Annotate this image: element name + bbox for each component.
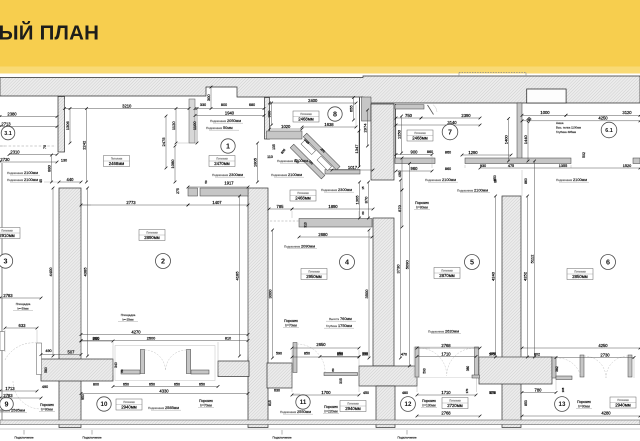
label pod 2620	[428, 329, 461, 334]
header yellow lighter strip	[0, 67, 640, 74]
dim 2650 bay11	[291, 342, 361, 350]
label pod 2550	[280, 409, 313, 414]
svg-text:580: 580	[44, 367, 48, 373]
ceiling box corridor-left	[104, 156, 130, 167]
interior wall room7 bottom	[395, 158, 435, 164]
svg-text:Подоконник: Подоконник	[428, 330, 445, 334]
svg-text:1306: 1306	[65, 121, 70, 131]
svg-text:170: 170	[465, 388, 469, 393]
bottom outer line	[0, 428, 640, 430]
dim 1407	[187, 200, 250, 207]
svg-text:2090мм: 2090мм	[301, 244, 315, 249]
svg-text:ЫЙ ПЛАН: ЫЙ ПЛАН	[0, 21, 99, 45]
svg-text:330: 330	[200, 103, 206, 107]
svg-text:2768: 2768	[441, 411, 451, 416]
svg-text:2890мм: 2890мм	[144, 235, 160, 240]
ceiling box hall	[290, 190, 316, 201]
svg-text:Потолоки: Потолоки	[111, 157, 123, 161]
room circle 4	[340, 255, 355, 270]
svg-text:1805: 1805	[252, 157, 257, 167]
svg-text:2940мм: 2940мм	[121, 405, 137, 410]
room circle 6	[601, 255, 616, 270]
svg-text:4270: 4270	[131, 329, 141, 334]
corridor stub dashed line	[270, 220, 299, 222]
svg-text:h=-25мм: h=-25мм	[122, 318, 133, 322]
svg-text:50мм: 50мм	[223, 125, 233, 130]
svg-text:Подоконник: Подоконник	[277, 159, 294, 163]
ceiling box room6	[567, 269, 593, 280]
svg-text:2100мм: 2100мм	[24, 177, 38, 182]
room1 bottom wall b	[200, 188, 248, 196]
dim 2713	[0, 121, 58, 128]
svg-text:9: 9	[5, 400, 9, 409]
svg-text:850: 850	[337, 353, 343, 357]
dim 4185 rot	[234, 195, 241, 358]
svg-text:4250: 4250	[598, 343, 608, 348]
ceiling box room1	[209, 156, 235, 167]
svg-text:Подоконник: Подоконник	[280, 410, 297, 414]
dim 3730 rot	[395, 179, 402, 360]
svg-text:382: 382	[555, 366, 559, 372]
label pod 2100 d	[277, 158, 310, 163]
connection label 3	[272, 430, 291, 440]
svg-text:2470мм: 2470мм	[214, 161, 230, 166]
dim 1700	[291, 390, 361, 397]
svg-text:575: 575	[490, 391, 496, 395]
svg-text:Потолоки: Потолоки	[347, 402, 359, 406]
dim 4252 rot	[522, 195, 529, 359]
svg-text:11: 11	[300, 399, 307, 406]
svg-text:680: 680	[249, 103, 255, 107]
room circle 3.1	[1, 126, 15, 140]
svg-text:810: 810	[225, 337, 231, 341]
svg-text:2: 2	[161, 257, 165, 266]
svg-text:3.1: 3.1	[4, 131, 12, 137]
svg-text:2950мм: 2950мм	[306, 274, 322, 279]
svg-text:900: 900	[411, 149, 419, 154]
svg-text:110: 110	[267, 155, 273, 159]
dim 655 rot	[348, 96, 355, 121]
svg-text:Потолоки: Потолоки	[123, 400, 135, 404]
svg-text:475: 475	[508, 164, 514, 168]
extension lines horizontal	[0, 109, 522, 395]
svg-text:15: 15	[361, 186, 365, 190]
label vysota 2585	[0, 408, 27, 413]
dim 3140	[395, 120, 482, 127]
dim 785	[268, 204, 294, 211]
svg-text:2720мм: 2720мм	[447, 403, 463, 408]
room7 door diagonal	[428, 105, 434, 115]
svg-text:650: 650	[123, 383, 129, 387]
dim 900	[395, 149, 434, 156]
svg-text:800: 800	[93, 337, 99, 341]
ceiling box room8	[293, 111, 319, 122]
svg-text:2550мм: 2550мм	[297, 409, 311, 414]
svg-text:1890: 1890	[328, 204, 338, 209]
svg-text:310: 310	[304, 222, 308, 228]
room circle 6.1	[601, 122, 617, 138]
svg-text:1700: 1700	[321, 390, 331, 395]
svg-text:4: 4	[345, 258, 349, 267]
svg-text:900: 900	[266, 110, 271, 118]
room circle 10	[97, 397, 111, 411]
svg-text:108: 108	[561, 387, 565, 392]
svg-text:1305: 1305	[354, 195, 359, 205]
hall door leaf diag 1	[301, 140, 315, 154]
svg-text:Подключение: Подключение	[397, 436, 416, 440]
svg-text:80: 80	[331, 368, 335, 372]
hall door leaf diag 2	[317, 156, 331, 170]
svg-text:1713: 1713	[5, 386, 15, 391]
svg-text:780: 780	[535, 387, 543, 392]
label pod 2100 f	[556, 177, 589, 182]
room circle 1	[221, 139, 235, 153]
svg-text:Подоконник: Подоконник	[457, 189, 474, 193]
dim 4330	[80, 388, 250, 395]
svg-text:2300мм: 2300мм	[229, 172, 243, 177]
refr label	[324, 316, 356, 328]
room circle 5	[465, 255, 480, 270]
wall M mid	[373, 218, 394, 366]
ceiling box room3	[0, 228, 20, 239]
svg-text:1750мм: 1750мм	[338, 323, 352, 328]
svg-text:5112: 5112	[529, 254, 534, 263]
dim 870 rot b	[397, 189, 404, 229]
svg-text:1520: 1520	[623, 164, 631, 168]
label pod 2300 b	[321, 187, 354, 192]
dim 2390	[420, 113, 482, 120]
svg-text:850: 850	[304, 352, 310, 356]
dim 2310	[8, 149, 59, 156]
svg-text:860: 860	[445, 151, 451, 155]
svg-text:Подоконник: Подоконник	[425, 178, 442, 182]
svg-text:650: 650	[174, 383, 180, 387]
svg-text:1407: 1407	[212, 200, 222, 205]
dim 300 rot niche	[206, 86, 213, 110]
wall M cross arm	[359, 366, 417, 386]
svg-text:Подключение: Подключение	[272, 436, 291, 440]
dim 4385 rot	[82, 187, 89, 358]
svg-text:7: 7	[448, 128, 452, 137]
connection label 2	[82, 430, 101, 440]
dim 880 rot	[46, 154, 53, 184]
dim 2783 b	[0, 393, 42, 400]
svg-text:8: 8	[333, 110, 337, 119]
svg-text:760мм: 760мм	[340, 316, 352, 321]
ceiling box bay13	[610, 397, 636, 408]
room9 door arc	[5, 343, 37, 360]
svg-text:Подоконник: Подоконник	[284, 245, 301, 249]
svg-text:4280: 4280	[601, 411, 611, 416]
svg-text:275: 275	[176, 188, 180, 194]
svg-text:50: 50	[204, 180, 208, 184]
label podokonnik 50	[206, 125, 239, 130]
room3 dashed line	[0, 145, 56, 147]
svg-text:3: 3	[4, 257, 8, 266]
svg-text:70: 70	[43, 145, 47, 149]
svg-text:2620мм: 2620мм	[445, 329, 459, 334]
svg-text:4330: 4330	[159, 388, 169, 393]
svg-text:655: 655	[348, 105, 353, 113]
svg-text:2600: 2600	[147, 337, 155, 341]
svg-text:Ниша: Ниша	[556, 121, 564, 125]
room9 lower door arc	[13, 381, 41, 409]
dim row 650	[112, 385, 220, 388]
svg-text:480: 480	[402, 391, 408, 395]
ploshchadka 25	[118, 313, 138, 322]
svg-text:1710: 1710	[441, 351, 451, 356]
svg-text:80: 80	[120, 369, 124, 373]
svg-text:5090: 5090	[404, 260, 409, 270]
dim 2768 b	[416, 411, 482, 418]
svg-text:Подключение: Подключение	[14, 436, 33, 440]
svg-text:Потолоки: Потолоки	[574, 270, 586, 274]
svg-text:1400: 1400	[503, 135, 508, 145]
dim 1080 rot	[170, 145, 177, 184]
svg-text:575: 575	[490, 352, 496, 356]
svg-text:2768: 2768	[441, 343, 451, 348]
svg-text:1017: 1017	[348, 165, 358, 170]
svg-text:340: 340	[114, 362, 118, 368]
svg-text:Подоконник: Подоконник	[271, 173, 288, 177]
dim 2680	[298, 232, 374, 239]
porozhek 9	[39, 403, 55, 411]
label podokonnik 2050	[210, 118, 243, 123]
svg-text:2730: 2730	[0, 157, 10, 162]
dim 1020	[268, 124, 303, 130]
svg-text:800: 800	[221, 103, 227, 107]
svg-text:Высота: Высота	[329, 317, 339, 321]
svg-text:1020: 1020	[281, 124, 291, 129]
svg-text:4385: 4385	[82, 267, 87, 277]
ceiling box bay12	[442, 398, 468, 409]
wall L vertical	[59, 188, 81, 428]
svg-text:1917: 1917	[224, 181, 234, 186]
svg-text:802: 802	[534, 353, 540, 357]
wall R upper thin	[517, 103, 522, 161]
svg-text:2940мм: 2940мм	[615, 403, 631, 408]
svg-text:2468мм: 2468мм	[298, 117, 314, 122]
svg-text:h=70мм: h=70мм	[285, 323, 297, 327]
wall R cross arm	[479, 357, 552, 384]
room circle 7	[442, 124, 458, 140]
svg-text:2310: 2310	[10, 149, 20, 154]
dim 4270	[80, 329, 250, 336]
dim 1710 b	[416, 390, 478, 397]
svg-text:2468мм: 2468мм	[412, 136, 428, 141]
dim 1400 rot	[503, 117, 510, 162]
svg-text:380: 380	[466, 366, 470, 372]
corridor wall stub	[299, 219, 372, 228]
label pod 2585	[148, 405, 181, 410]
porozhek 12	[421, 399, 437, 407]
svg-text:Площадка: Площадка	[16, 302, 31, 306]
svg-text:305: 305	[339, 378, 343, 384]
svg-text:630: 630	[274, 389, 280, 393]
top exterior wall band	[0, 76, 640, 103]
dim 1306 rot	[65, 107, 72, 144]
svg-text:Потолоки: Потолоки	[414, 131, 426, 135]
ploshchadka 50	[13, 302, 33, 311]
svg-text:2100мм: 2100мм	[24, 170, 38, 175]
dim 960	[395, 166, 434, 173]
interior wall mid	[465, 158, 571, 164]
interior wall right edge	[633, 158, 640, 164]
svg-text:800: 800	[93, 383, 99, 387]
svg-text:2100мм: 2100мм	[294, 158, 308, 163]
svg-text:850: 850	[493, 175, 497, 181]
svg-text:1638: 1638	[324, 122, 334, 127]
svg-text:Площадка: Площадка	[121, 313, 136, 317]
room1 bottom wall a	[188, 188, 198, 196]
svg-text:390: 390	[362, 353, 368, 357]
svg-text:633: 633	[19, 323, 27, 328]
left edge window	[0, 332, 5, 351]
dim 2242 rot	[81, 107, 88, 183]
svg-text:h=80мм: h=80мм	[416, 205, 428, 209]
svg-text:1120: 1120	[171, 121, 176, 130]
wall L cross arm	[41, 359, 113, 381]
svg-text:2300мм: 2300мм	[338, 187, 352, 192]
dim row r2	[80, 339, 250, 342]
svg-text:4185: 4185	[234, 271, 239, 281]
svg-text:3730: 3730	[395, 264, 400, 274]
svg-text:130: 130	[61, 159, 67, 163]
room circle 12	[401, 397, 416, 412]
svg-text:2100мм: 2100мм	[288, 172, 302, 177]
balcony doors bay 10	[115, 346, 215, 381]
svg-text:3500: 3500	[364, 289, 369, 299]
wall W1 left thin	[58, 97, 65, 153]
wall M upper	[371, 104, 394, 180]
svg-text:Потолоки: Потолоки	[617, 398, 629, 402]
room 7 left wall line	[395, 104, 397, 158]
svg-text:h=130мм: h=130мм	[422, 403, 435, 407]
svg-text:2475: 2475	[161, 137, 166, 147]
room circle 3	[0, 254, 13, 268]
svg-text:440: 440	[67, 177, 75, 182]
label pod 2090	[284, 244, 317, 249]
dim 1290	[461, 150, 513, 157]
svg-text:853: 853	[524, 400, 528, 406]
svg-text:12: 12	[405, 401, 412, 408]
dim 3000 rot	[267, 229, 274, 360]
dim 1710 a	[416, 351, 478, 358]
svg-text:Глубина: Глубина	[326, 324, 337, 328]
label pod 2100 g	[457, 188, 490, 193]
svg-text:2585мм: 2585мм	[11, 408, 25, 413]
dim 780	[521, 387, 558, 394]
dim 1120 rot	[171, 107, 178, 144]
dim 633	[4, 323, 39, 330]
wall C cross arm left	[218, 361, 249, 377]
svg-text:880: 880	[46, 164, 51, 172]
svg-text:2242: 2242	[81, 140, 86, 150]
dim row bay11	[291, 356, 361, 359]
label pod 2100 e	[425, 177, 458, 182]
room 8 right wall line	[359, 98, 361, 168]
dim 4250 b	[521, 343, 640, 350]
porozhek 13	[576, 400, 592, 408]
svg-text:1: 1	[226, 142, 230, 151]
dim 2974 rot	[362, 109, 369, 148]
wall C vertical	[248, 188, 268, 428]
svg-text:860: 860	[445, 167, 451, 171]
ceiling box room2	[139, 230, 165, 241]
connection label 4	[397, 430, 416, 440]
svg-text:2585мм: 2585мм	[165, 405, 179, 410]
room7 door arc	[433, 105, 437, 112]
dim 1940	[194, 110, 266, 117]
ceiling box room5	[434, 268, 460, 279]
svg-text:1355: 1355	[559, 164, 567, 168]
dim 2730	[0, 157, 58, 164]
svg-text:3120: 3120	[622, 110, 632, 115]
svg-text:650: 650	[199, 383, 205, 387]
svg-text:2468мм: 2468мм	[109, 161, 125, 166]
ceiling box room4	[301, 269, 327, 280]
dim 2730	[555, 352, 636, 359]
svg-text:1290: 1290	[468, 150, 478, 155]
nisha text	[556, 121, 581, 134]
dim 900 rot	[266, 102, 273, 127]
svg-text:Подоконник: Подоконник	[212, 173, 229, 177]
dim 2380	[0, 111, 58, 118]
svg-text:h=90мм: h=90мм	[578, 404, 590, 408]
svg-text:2713: 2713	[1, 121, 11, 126]
svg-text:6.1: 6.1	[605, 128, 613, 134]
svg-text:1250: 1250	[396, 129, 401, 139]
svg-text:470: 470	[401, 353, 407, 357]
svg-text:870: 870	[397, 204, 402, 212]
svg-text:490: 490	[45, 349, 51, 353]
room9 door leaf	[37, 343, 42, 375]
svg-text:2773: 2773	[126, 200, 136, 205]
dim 1805 rot	[252, 142, 259, 184]
svg-text:590: 590	[276, 352, 282, 356]
dim 4280	[521, 411, 640, 418]
svg-text:4400: 4400	[48, 267, 53, 277]
ceiling box bay12l	[340, 401, 366, 412]
label pod 2100 b	[7, 177, 40, 182]
room circle 13	[555, 397, 570, 412]
header yellow band	[0, 0, 640, 67]
svg-text:2870мм: 2870мм	[439, 273, 455, 278]
room circle 9	[0, 397, 13, 411]
svg-text:Потолоки: Потолоки	[216, 157, 228, 161]
svg-text:1000: 1000	[540, 110, 550, 115]
ceiling box bay10	[116, 399, 142, 410]
svg-text:2680: 2680	[318, 232, 328, 237]
svg-text:2100мм: 2100мм	[442, 177, 456, 182]
svg-text:930: 930	[480, 164, 486, 168]
shaft solid gray	[362, 97, 372, 121]
svg-text:Подоконник: Подоконник	[321, 188, 338, 192]
dim 3210	[63, 103, 190, 110]
wall W3 room1-room8	[265, 98, 270, 140]
dim 750	[395, 113, 423, 120]
svg-text:507: 507	[68, 349, 76, 354]
dim 1250 rot	[396, 115, 403, 155]
svg-text:Потолоки: Потолоки	[449, 399, 461, 403]
svg-text:815: 815	[268, 400, 272, 406]
wall R vertical	[502, 196, 521, 428]
svg-text:785: 785	[277, 204, 285, 209]
svg-text:450: 450	[363, 391, 369, 395]
dim 3500 rot	[364, 229, 371, 360]
svg-text:Потолоки: Потолоки	[146, 231, 158, 235]
dim 1440 rot	[523, 117, 530, 162]
